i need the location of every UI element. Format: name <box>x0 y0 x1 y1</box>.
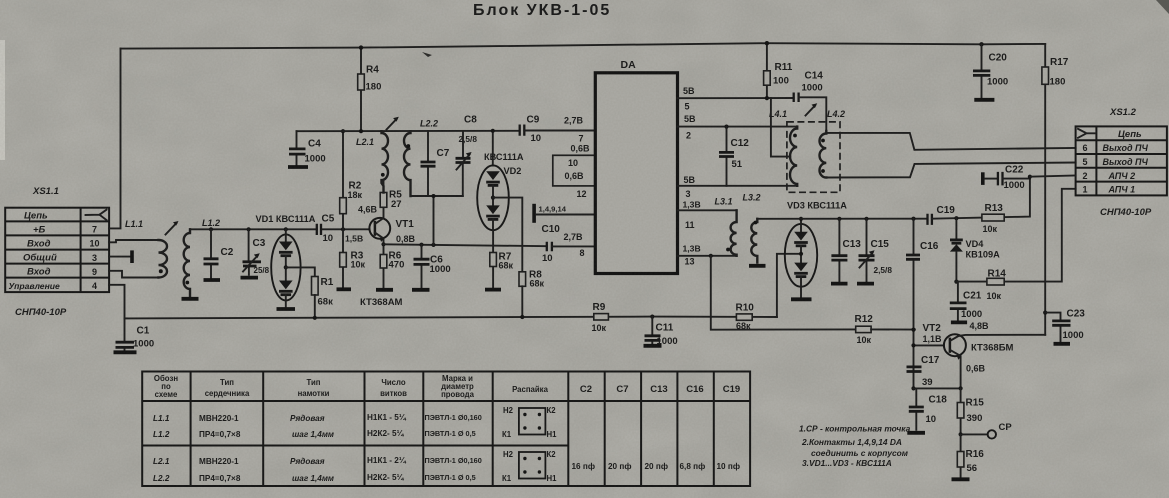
inductor L1.1 <box>159 240 168 278</box>
capacitor C6 <box>421 245 423 288</box>
connector XS1.2 header fork symbol <box>1078 129 1095 138</box>
wire pin9 to L1.1 bottom <box>109 271 159 278</box>
connector XS1.1 header fork symbol <box>86 210 107 220</box>
wire L4.2 bottom to XS1.2 pin5 <box>826 163 1075 178</box>
wire VD2 tap to R8 <box>493 198 522 272</box>
resistor R4 <box>360 48 362 132</box>
wire pin10 to L1.1 top <box>109 240 159 242</box>
node dot C2 <box>209 227 213 231</box>
wire R10 to VD3 tap <box>777 254 801 317</box>
inductor L1.2 <box>184 229 190 297</box>
wire pin13 node down through bus to R12 <box>709 254 713 258</box>
capacitor C20 <box>979 42 983 46</box>
capacitor C14 <box>794 93 799 103</box>
node dot tank2 return <box>431 243 435 247</box>
wire tank1 top rail <box>190 228 370 230</box>
ground under L3.2 <box>749 264 766 268</box>
resistor R7 <box>492 230 494 287</box>
wire VD1 tap to R1 <box>286 267 315 276</box>
wire C17 bottom to emitter <box>911 386 915 390</box>
wire L4.1 center tap <box>771 98 790 157</box>
stray mark <box>422 52 432 57</box>
wire R12 to VT2 base <box>871 328 915 330</box>
tuning arrow L1 <box>166 223 177 235</box>
capacitor C21 <box>957 282 959 321</box>
resistor R11 <box>766 43 768 98</box>
transistor VT2 <box>944 334 966 356</box>
inductor L2.1 <box>382 131 389 192</box>
table row 1 L1 <box>153 413 482 439</box>
connector XS1.1 table frame <box>5 208 109 292</box>
ground under C3 <box>241 276 259 280</box>
ground under R7 <box>485 288 501 292</box>
wire bottom tuning bus <box>125 317 777 319</box>
inductor L2.2 <box>404 131 411 196</box>
wire АПЧ2 row2 <box>1030 176 1076 177</box>
box pin10 voltage <box>553 155 596 186</box>
capacitance values <box>572 462 741 471</box>
inductor L3.1 <box>731 210 737 256</box>
resistor R1 <box>312 277 319 296</box>
ground under R6 <box>376 288 393 292</box>
dark scan corner top-right <box>1156 0 1169 14</box>
wire pin2 to L4.1 top <box>678 126 798 128</box>
wire pin11 to L3.1 <box>678 209 737 211</box>
wire +Б pin7 to top supply bus <box>109 49 121 229</box>
resistor R12 <box>856 326 871 332</box>
capacitor C5 <box>317 224 321 235</box>
capacitor C12 <box>724 125 728 129</box>
wire pin5 to R11/C14 node <box>678 97 794 99</box>
resistor R9 on tuning bus <box>594 314 609 320</box>
node dot C6 <box>419 243 423 247</box>
ground under VD3 <box>791 297 812 301</box>
light left edge sliver <box>0 40 5 160</box>
capacitor C10 <box>547 242 552 252</box>
wire base tap <box>914 344 944 346</box>
resistor R5 <box>383 181 385 219</box>
wire pin4 Управление down to tuning bus <box>109 285 125 319</box>
capacitor C7 <box>427 131 429 196</box>
transistor VT1 <box>369 218 390 239</box>
capacitor C23 <box>1043 311 1047 315</box>
node dot VD1 <box>284 227 288 231</box>
capacitor C16 <box>911 217 915 221</box>
wire top supply bus <box>121 43 1046 48</box>
resistor R3 <box>342 229 344 287</box>
wire L4.2 top to XS1.2 pin6 <box>826 133 1075 150</box>
wire AFC node R14 to АПЧ1 <box>954 280 958 284</box>
chassis bar on Общий stub <box>130 250 134 263</box>
resistor R10 on tuning bus <box>736 314 752 320</box>
tuning arrow L2 <box>387 119 397 130</box>
ground under L1.2 <box>182 297 199 301</box>
inductor L4.2 <box>819 131 826 178</box>
capacitor C2 <box>210 229 212 277</box>
resistor R8 <box>519 272 526 287</box>
tuning arrow L4 <box>806 106 816 116</box>
ground under R3 <box>337 287 352 291</box>
trimmer capacitor C3 <box>248 229 250 274</box>
capacitor C19 <box>928 214 932 225</box>
table row 2 L2 <box>153 456 482 483</box>
inductor L3.2 <box>751 219 757 263</box>
shield dashed box L4 <box>787 122 840 192</box>
resistor R6 <box>383 244 385 287</box>
node dot VT1 emitter <box>381 242 385 246</box>
wire tank2 top rail <box>297 130 519 132</box>
capacitor C11 <box>650 315 654 319</box>
capacitor C17 <box>913 366 915 372</box>
wire VT2 collector <box>958 335 1045 336</box>
IC DA <box>595 73 677 274</box>
trimmer capacitor C15 <box>864 217 868 221</box>
connector XS1.2 table frame <box>1076 126 1167 195</box>
wire pin13 to L3.1 bottom <box>678 255 737 257</box>
capacitor C13 <box>837 217 841 221</box>
resistor R13 <box>982 214 1004 221</box>
resistor R16 <box>960 434 962 477</box>
capacitor C18 <box>915 388 917 429</box>
capacitor C4 <box>296 131 298 164</box>
pinout square row 2 <box>519 452 546 479</box>
trimmer capacitor C8 <box>462 131 464 196</box>
table header texts <box>154 374 740 399</box>
polarity dot L1.2 <box>185 281 189 285</box>
pinout square row 1 <box>519 408 546 435</box>
polarity dot L1.1 <box>159 269 163 273</box>
chassis pins 1,4,9,14 <box>532 204 536 223</box>
wire pin3 to L4.1 bottom <box>678 185 798 187</box>
resistor R15 <box>960 388 962 434</box>
capacitor C9 <box>520 125 525 136</box>
wire pin3 Общий stub <box>109 256 130 258</box>
inductor L4.1 <box>790 127 797 186</box>
resistor R2 <box>342 131 344 229</box>
resistor R14 <box>987 278 1004 285</box>
wire tank3 top rail <box>757 218 927 220</box>
varactor VD4 <box>954 216 958 220</box>
capacitor C1 <box>124 318 126 350</box>
ground under C2 <box>204 278 221 282</box>
table frame <box>142 372 750 487</box>
ground under VD1 <box>277 307 296 311</box>
test point СР <box>959 432 963 436</box>
wire emitter rail to C10 <box>384 244 547 246</box>
ground under R16 <box>952 477 970 481</box>
capacitor C22 <box>981 172 985 185</box>
wire tank2 bottom rail <box>411 196 463 245</box>
resistor R17 <box>1044 44 1046 335</box>
node dot R2/R3 <box>341 227 345 231</box>
node dot C3 <box>247 227 251 231</box>
